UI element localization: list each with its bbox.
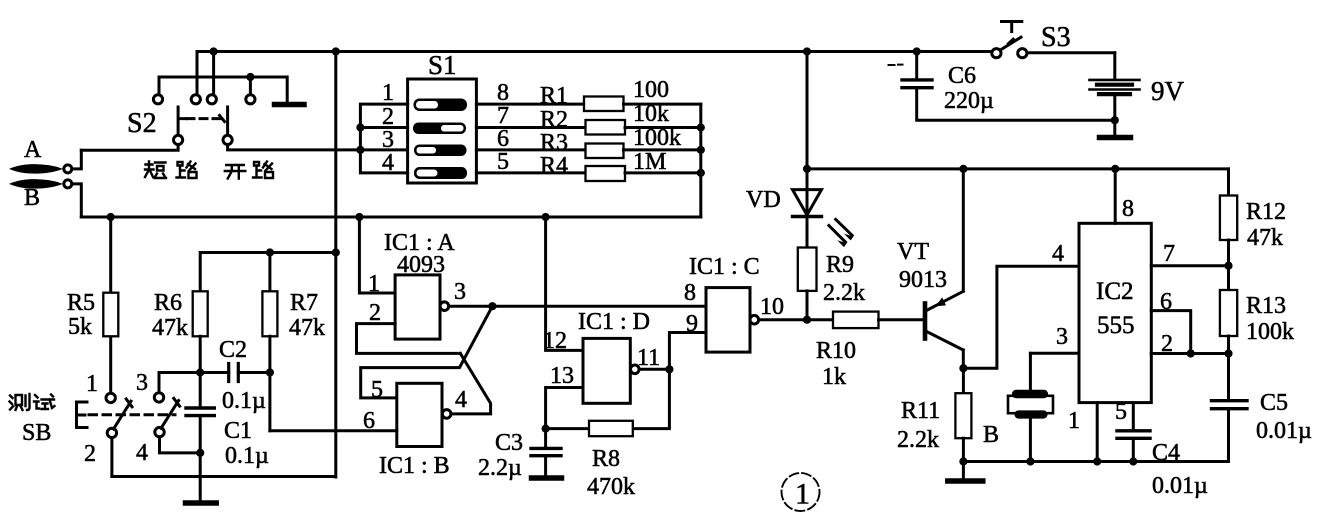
svg-text:4: 4	[1052, 241, 1064, 267]
node: junction top rail / S2 contact	[210, 47, 218, 55]
wire: C2 row (SB pole2 top to R7)	[159, 373, 270, 393]
pin 2 wire	[1151, 352, 1228, 355]
node: junction S1 bus row2	[356, 123, 364, 131]
node: junction top rail x=336	[332, 47, 340, 55]
node: junction battery bottom	[1111, 116, 1119, 124]
svg-text:1: 1	[368, 271, 380, 297]
svg-text:2: 2	[1161, 331, 1173, 357]
ground (under C1)	[186, 500, 217, 506]
resistor R9	[798, 248, 817, 320]
wire: resistors to right bus	[624, 104, 701, 173]
svg-text:1: 1	[86, 371, 98, 397]
svg-text:2: 2	[84, 441, 96, 467]
label short-circuit (Chinese: duan lu)	[145, 162, 197, 179]
pin 6 wire	[1151, 311, 1190, 354]
svg-text:10: 10	[760, 294, 784, 320]
svg-text:R6: R6	[154, 290, 182, 316]
svg-text:3: 3	[454, 279, 466, 305]
transistor VT 9013	[925, 169, 963, 368]
svg-text:R1: R1	[540, 83, 568, 109]
node: junction pin7/R12/R13	[1224, 262, 1232, 270]
pin 7 wire	[1151, 264, 1228, 267]
svg-text:1: 1	[382, 80, 394, 106]
svg-text:6: 6	[363, 408, 375, 434]
svg-text:S2: S2	[127, 108, 157, 139]
node: junction S1 bus row3	[356, 146, 364, 154]
svg-text:1: 1	[795, 478, 810, 511]
svg-text:1: 1	[1068, 408, 1080, 434]
resistor R5	[103, 217, 118, 393]
wire: S2 left pole to probe A	[81, 145, 178, 151]
op-amp gate IC1:D (NAND 4093)	[546, 217, 670, 429]
node: junction 169-rail x=807	[803, 165, 811, 173]
svg-text:R13: R13	[1246, 293, 1286, 319]
wire: gate A output to gate C pin8	[449, 305, 706, 308]
svg-text:IC1 : C: IC1 : C	[689, 254, 760, 280]
wire: cross-couple B.out to A.pin2	[451, 353, 491, 414]
node: junction bus R2	[697, 123, 705, 131]
svg-text:9: 9	[686, 311, 698, 337]
op-amp gate IC1:C (NAND 4093)	[669, 288, 833, 370]
node: junction VT collector riser	[959, 165, 967, 173]
wire: right bus of R1-R4	[699, 104, 702, 217]
svg-text:9V: 9V	[1151, 76, 1185, 106]
svg-text:5: 5	[497, 149, 509, 175]
node: junction bus R4	[697, 169, 705, 177]
resistor R2	[586, 120, 626, 135]
svg-text:5: 5	[371, 377, 383, 403]
node: junction top rail x=807	[803, 47, 811, 55]
figure number circled 1	[782, 473, 820, 511]
svg-text:11: 11	[637, 345, 660, 371]
svg-text:470k: 470k	[587, 474, 635, 500]
svg-text:IC1 : B: IC1 : B	[379, 453, 450, 479]
svg-text:R8: R8	[592, 446, 620, 472]
resistor R7	[262, 291, 277, 430]
svg-text:220µ: 220µ	[944, 88, 994, 114]
wire: SB contact4 to C1 bottom	[160, 437, 201, 453]
pin 1 wire	[1096, 403, 1099, 462]
svg-text:0.1µ: 0.1µ	[225, 443, 269, 469]
resistor R12	[1220, 169, 1237, 266]
capacitor C4	[1117, 431, 1150, 462]
node: junction R7/C2	[266, 368, 274, 376]
svg-text:IC1 : D: IC1 : D	[578, 309, 650, 335]
wire: S2 ground branch horizontal	[159, 77, 287, 102]
wire: S1 left bus and rows	[360, 104, 407, 173]
svg-text:12: 12	[543, 328, 567, 354]
buzzer B	[1008, 353, 1053, 461]
wire: emitter to IC2 pin4	[963, 266, 1079, 368]
svg-text:100: 100	[633, 77, 669, 103]
svg-text:47k: 47k	[289, 315, 325, 341]
svg-text:9013: 9013	[899, 267, 947, 293]
svg-text:10k: 10k	[633, 101, 669, 127]
node: junction gate D output	[665, 365, 673, 373]
wire: R6/R7 top rail	[200, 253, 336, 292]
capacitor C2	[229, 364, 239, 382]
svg-text:4: 4	[136, 440, 148, 466]
svg-text:100k: 100k	[633, 125, 681, 151]
svg-text:2: 2	[369, 300, 381, 326]
svg-text:R5: R5	[67, 290, 95, 316]
resistor R6	[193, 291, 208, 406]
resistor R8	[547, 369, 670, 436]
wire: probe B measurement bus	[81, 216, 701, 219]
svg-text:S3: S3	[1041, 22, 1071, 53]
ground (S2 area)	[275, 102, 305, 108]
svg-text:R12: R12	[1246, 199, 1286, 225]
capacitor C5	[1212, 354, 1248, 462]
node: junction on S2 ground branch	[246, 73, 254, 81]
svg-text:S1: S1	[428, 50, 457, 80]
diode VD (LED)	[793, 190, 854, 248]
svg-text:3: 3	[1056, 324, 1068, 350]
svg-text:7: 7	[1163, 241, 1175, 267]
node: junction gate D pin12 drop	[542, 213, 550, 221]
svg-text:C5: C5	[1260, 390, 1288, 416]
node: junction C4 bottom	[1129, 457, 1137, 465]
pin 5 wire	[1132, 403, 1135, 429]
node: junction R7 top	[266, 248, 274, 256]
wire: V+ drop to VD and 169-rail	[806, 52, 809, 190]
probe B	[9, 179, 81, 217]
node: junction gate A pin1 drop	[355, 213, 363, 221]
op-amp gate IC1:A (NAND 4093)	[357, 217, 461, 353]
svg-text:100k: 100k	[1246, 319, 1294, 345]
node: junction pin6/pin2	[1187, 349, 1195, 357]
ground (under C3)	[532, 475, 562, 481]
resistor R1	[584, 97, 624, 112]
stray mark near C6	[889, 64, 903, 66]
node: junction C6 top	[913, 47, 921, 55]
svg-text:4: 4	[455, 387, 467, 413]
wire: top V+ rail	[197, 52, 1115, 95]
switch S1 (DIP)	[408, 79, 477, 183]
svg-text:2.2k: 2.2k	[823, 280, 865, 306]
node: junction pin2/R13/C5	[1224, 349, 1232, 357]
svg-text:R4: R4	[540, 153, 568, 179]
svg-text:C1: C1	[224, 418, 252, 444]
svg-text:A: A	[24, 137, 42, 163]
pin 3 wire	[1030, 352, 1079, 355]
wire: bottom rail of 555 section	[963, 460, 1228, 463]
wire: S2 contact drop	[212, 52, 215, 95]
resistor R11	[955, 368, 971, 461]
svg-text:0.01µ: 0.01µ	[1152, 473, 1208, 499]
svg-text:VT: VT	[897, 239, 929, 265]
svg-text:1k: 1k	[822, 364, 846, 390]
wire: S1 rows to resistors	[476, 104, 585, 173]
svg-text:VD: VD	[746, 187, 781, 213]
svg-text:R11: R11	[901, 398, 940, 424]
svg-text:R9: R9	[826, 252, 854, 278]
wire: SB contact2 to bottom rail	[110, 438, 113, 477]
svg-text:1M: 1M	[633, 149, 666, 175]
svg-text:B: B	[24, 185, 40, 211]
svg-text:C3: C3	[495, 430, 523, 456]
svg-text:C6: C6	[948, 63, 976, 89]
pin labels SB	[84, 370, 148, 467]
svg-text:555: 555	[1097, 312, 1135, 339]
svg-text:R10: R10	[816, 338, 856, 364]
svg-text:IC2: IC2	[1096, 278, 1134, 305]
resistor R10	[833, 312, 925, 329]
wire: S2 right pole to S1 row3	[228, 145, 408, 150]
svg-text:13: 13	[550, 363, 574, 389]
node: junction IC2 pin8 riser	[1111, 165, 1119, 173]
pin numbers S1 left	[382, 80, 394, 176]
node: junction gate A output	[488, 302, 496, 310]
label open-circuit (Chinese: kai lu)	[225, 162, 273, 179]
svg-text:0.01µ: 0.01µ	[1256, 418, 1312, 444]
svg-text:6: 6	[1160, 289, 1172, 315]
node: junction C1 bottom	[196, 449, 204, 457]
svg-text:2.2µ: 2.2µ	[478, 455, 522, 481]
pin 8 wire	[1114, 169, 1117, 223]
wire: V+ drop at x=336	[112, 52, 336, 478]
probe A	[9, 150, 81, 173]
svg-text:0.1µ: 0.1µ	[222, 388, 266, 414]
svg-text:4093: 4093	[397, 252, 445, 278]
svg-text:8: 8	[1122, 196, 1134, 222]
svg-text:SB: SB	[22, 420, 51, 446]
node: junction R6/C1/C2	[196, 368, 204, 376]
svg-text:3: 3	[136, 370, 148, 396]
svg-text:C2: C2	[219, 337, 247, 363]
node: junction VT emitter	[959, 364, 967, 372]
capacitor C3	[531, 429, 561, 476]
node: junction buzzer bottom	[1026, 457, 1034, 465]
pin numbers S1 right	[497, 80, 509, 175]
svg-text:R7: R7	[290, 290, 318, 316]
ground (below R11)	[948, 462, 983, 482]
svg-text:47k: 47k	[152, 315, 188, 341]
node: junction gate C out / R9 / R10	[803, 316, 811, 324]
ground (battery)	[1100, 135, 1131, 141]
capacitor C1	[186, 408, 214, 501]
svg-text:8: 8	[684, 280, 696, 306]
node: junction R6/R7 rail	[332, 248, 340, 256]
node: junction R11 bottom / ground	[959, 457, 967, 465]
svg-text:5: 5	[1115, 399, 1127, 425]
battery 9V	[1090, 53, 1140, 136]
resistor R4	[586, 166, 626, 181]
op-amp U: IC2 555	[1079, 223, 1151, 402]
resistor R13	[1220, 266, 1237, 354]
wire: mid supply rail y=169	[807, 167, 1229, 170]
pushbutton SB	[77, 393, 180, 438]
wire: cross-couple A.out to B.pin5	[361, 306, 493, 398]
svg-text:B: B	[983, 422, 999, 448]
node: junction R5 top	[107, 213, 115, 221]
node: junction pin1 bottom	[1093, 457, 1101, 465]
switch S2	[153, 95, 255, 145]
svg-text:5k: 5k	[68, 314, 92, 340]
node: junction bus R3	[697, 146, 705, 154]
op-amp gate IC1:B (NAND 4093)	[270, 383, 451, 446]
svg-text:C4: C4	[1152, 440, 1180, 466]
switch S3 with T handle	[992, 22, 1027, 58]
svg-text:47k: 47k	[1247, 225, 1283, 251]
label test (Chinese: ce shi) SB	[10, 394, 55, 410]
svg-text:2.2k: 2.2k	[897, 427, 939, 453]
resistor R3	[586, 144, 624, 159]
node: junction C3/R8/pin13	[542, 425, 550, 433]
capacitor C6	[902, 52, 1115, 121]
svg-text:4: 4	[382, 150, 394, 176]
